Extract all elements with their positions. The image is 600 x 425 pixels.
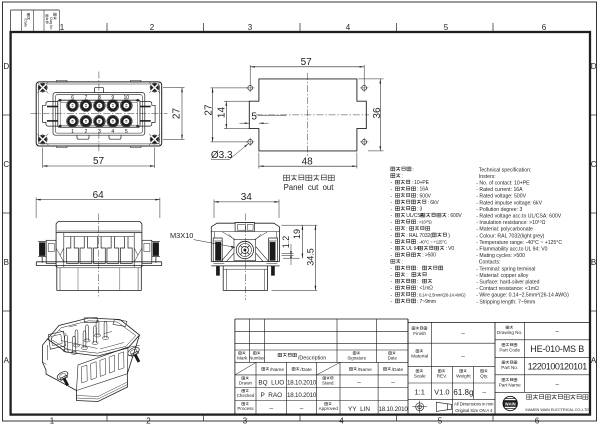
side view 64 bottle cavities xyxy=(67,237,79,264)
side view 34 base lines washers xyxy=(211,261,279,263)
svg-text:1: 1 xyxy=(71,129,74,135)
mini table rotated date text xyxy=(24,13,30,27)
svg-text:34.5: 34.5 xyxy=(305,248,315,266)
side view 34 right pillar black screw xyxy=(269,238,278,262)
svg-text:D: D xyxy=(591,62,597,71)
svg-text::: : xyxy=(406,273,407,279)
front view hood outline xyxy=(53,93,145,136)
svg-text:6: 6 xyxy=(535,417,540,425)
side view 34 dimension 1.2 xyxy=(282,252,294,254)
part name cell xyxy=(502,378,505,381)
isometric 3d view top rim xyxy=(48,318,140,356)
svg-text:: 0.14~2.5mm²(26-14 AWG): : 0.14~2.5mm²(26-14 AWG) xyxy=(417,292,466,297)
svg-text:: 16A: : 16A xyxy=(417,187,429,193)
svg-text:: <1mΩ: : <1mΩ xyxy=(417,286,433,292)
svg-text:YY LIN: YY LIN xyxy=(348,406,370,413)
cutout dimension 5 notch xyxy=(240,122,250,124)
svg-text:Stand.: Stand. xyxy=(322,380,335,385)
isometric left screw with black stem xyxy=(56,370,73,388)
svg-text:1:1: 1:1 xyxy=(414,388,424,397)
process row xyxy=(242,403,245,406)
technical spec chinese column xyxy=(391,167,395,171)
svg-text:Finish: Finish xyxy=(413,331,426,337)
svg-text:–: – xyxy=(391,379,395,386)
svg-text:34: 34 xyxy=(241,192,253,203)
zone column tick marks xyxy=(106,23,108,32)
svg-text:Original Size ON A 4: Original Size ON A 4 xyxy=(455,408,493,413)
svg-text:5: 5 xyxy=(125,129,128,135)
svg-text:Part No.: Part No. xyxy=(501,365,518,370)
svg-text:–: – xyxy=(555,381,559,388)
checked row xyxy=(242,389,245,392)
svg-text:2: 2 xyxy=(146,417,151,425)
svg-text:–: – xyxy=(357,379,361,386)
svg-text:M3X10: M3X10 xyxy=(170,231,193,240)
svg-text:/Description: /Description xyxy=(298,356,326,362)
svg-text:A: A xyxy=(4,356,10,365)
svg-text:7: 7 xyxy=(85,95,88,101)
svg-text:: 500V: : 500V xyxy=(417,193,432,199)
svg-text::: : xyxy=(402,259,403,265)
isometric front cavity band xyxy=(77,347,129,391)
front view right latch bracket xyxy=(140,102,155,127)
svg-text:V1.0: V1.0 xyxy=(434,388,449,397)
svg-text:: >10¹⁰Ω: : >10¹⁰Ω xyxy=(417,220,433,225)
company logo WAIN xyxy=(503,396,517,410)
svg-text:B: B xyxy=(4,258,9,267)
svg-text:- Rated current: 16A: - Rated current: 16A xyxy=(476,187,523,193)
svg-text:- Mating cycles: >500: - Mating cycles: >500 xyxy=(476,253,525,259)
side view 34 V arms xyxy=(221,247,269,262)
side view 64 dimension xyxy=(35,198,37,219)
svg-text:–: – xyxy=(555,329,559,336)
cutout dimension 57 top xyxy=(249,65,251,85)
side view 34 dimension xyxy=(213,200,215,219)
side view 64 left screw black xyxy=(39,243,45,256)
cutout dimension 36 right xyxy=(359,78,384,80)
svg-text:2: 2 xyxy=(85,129,88,135)
svg-text:57: 57 xyxy=(93,156,105,167)
svg-text:18.10.2010: 18.10.2010 xyxy=(378,406,408,413)
svg-text:- Surface: hard-silver plated: - Surface: hard-silver plated xyxy=(476,280,539,286)
svg-text:- Insulation resistance: >10¹: - Insulation resistance: >10¹⁰Ω xyxy=(476,220,545,226)
svg-text:/Date: /Date xyxy=(300,367,312,373)
svg-text:Technical specification:: Technical specification: xyxy=(479,167,532,173)
svg-text:- Rated voltage acc.to UL/CSA: - Rated voltage acc.to UL/CSA: 600V xyxy=(476,214,561,220)
svg-text:All Dimensions in mm: All Dimensions in mm xyxy=(454,401,494,406)
svg-text:3: 3 xyxy=(98,129,101,135)
svg-text:- Stripping length: 7~9mm: - Stripping length: 7~9mm xyxy=(476,299,535,305)
svg-text:- Material: copper alloy: - Material: copper alloy xyxy=(476,273,528,279)
svg-text:Qty.: Qty. xyxy=(480,374,488,379)
side view 34 centerline xyxy=(244,214,246,301)
svg-text:Drawing No.: Drawing No. xyxy=(497,330,522,335)
svg-text:/Name: /Name xyxy=(270,367,284,373)
front view left latch bracket xyxy=(43,102,58,127)
panel cutout outline xyxy=(249,79,366,151)
side view 34 dimension 19 xyxy=(282,224,318,226)
svg-text:- Wire gauge: 0.14~2.5mm²(26-: - Wire gauge: 0.14~2.5mm²(26-14 AWG) xyxy=(476,293,569,299)
svg-text:: >500: : >500 xyxy=(422,253,436,259)
cutout dimension 48 bottom xyxy=(258,153,260,169)
svg-text:–: – xyxy=(461,354,465,361)
svg-text:–: – xyxy=(482,389,486,396)
mini table rotated dwg text xyxy=(46,13,57,29)
part no cell xyxy=(502,361,505,364)
side view 64 top cap xyxy=(56,222,142,233)
front view centerlines xyxy=(98,72,100,153)
svg-text::: : xyxy=(406,226,407,232)
svg-text:19: 19 xyxy=(292,229,302,239)
panel cutout centerlines xyxy=(307,73,309,157)
svg-text:C: C xyxy=(3,160,9,169)
drawn row xyxy=(242,377,245,380)
svg-text:Panel cut out: Panel cut out xyxy=(284,183,335,192)
drawing no cell xyxy=(506,326,509,329)
side view 34 top outline wings xyxy=(211,223,279,262)
svg-text:- Material: polycarbonate: - Material: polycarbonate xyxy=(476,227,533,233)
front view insert corner marks xyxy=(59,99,62,102)
svg-text:: 600V: : 600V xyxy=(448,213,463,219)
svg-text:: 10+PE: : 10+PE xyxy=(412,180,430,186)
front view top guide tab xyxy=(95,87,104,92)
svg-text:4: 4 xyxy=(346,23,351,32)
projection symbol circle xyxy=(416,403,424,411)
svg-text:C: C xyxy=(591,160,597,169)
right title block grid xyxy=(495,339,590,341)
svg-text:UL 94: UL 94 xyxy=(406,246,419,252)
svg-text:: 3: : 3 xyxy=(417,207,423,213)
svg-text:2: 2 xyxy=(150,23,155,32)
svg-text:- Colour: RAL 7032(light grey: - Colour: RAL 7032(light grey) xyxy=(476,233,544,239)
svg-text:Part Name: Part Name xyxy=(499,382,521,387)
side view 64 centerline xyxy=(98,214,100,298)
side view 34 dimension 34.5 xyxy=(272,289,318,291)
scale rev weight qty headers xyxy=(416,370,419,373)
description header xyxy=(278,353,282,356)
front view insert body xyxy=(58,100,140,127)
svg-text:5: 5 xyxy=(438,417,443,425)
name date sub headers xyxy=(262,368,265,371)
svg-text:: 6kV: : 6kV xyxy=(428,200,440,206)
company name chinese xyxy=(527,395,532,400)
svg-text:5: 5 xyxy=(444,23,449,32)
side view 34 screw stems below base xyxy=(216,266,219,275)
svg-text:1.2: 1.2 xyxy=(281,236,291,249)
svg-text::: : xyxy=(417,279,418,285)
svg-text:27: 27 xyxy=(172,108,183,120)
side view 64 base plate xyxy=(36,261,161,263)
side view 64 right ear block xyxy=(142,240,152,263)
side view 34 lower skirt xyxy=(223,266,267,291)
svg-text::: : xyxy=(412,167,413,173)
projection symbol cone xyxy=(436,402,451,411)
svg-text:- Rated impulse voltage: 6kV: - Rated impulse voltage: 6kV xyxy=(476,200,542,206)
svg-text:Date: Date xyxy=(388,355,398,360)
svg-text::: : xyxy=(402,174,403,180)
svg-text:Material: Material xyxy=(411,354,428,360)
isometric right screw with black stem xyxy=(126,346,144,365)
side view 64 side frames xyxy=(55,233,57,267)
svg-text:64: 64 xyxy=(93,190,105,201)
svg-text:4: 4 xyxy=(339,417,344,425)
svg-text:9: 9 xyxy=(111,95,114,101)
svg-text:REV.: REV. xyxy=(437,374,448,379)
svg-text:6: 6 xyxy=(542,23,547,32)
svg-text:B: B xyxy=(591,258,596,267)
svg-text:3: 3 xyxy=(248,23,253,32)
svg-text:18.10.2010: 18.10.2010 xyxy=(287,392,317,399)
svg-text:/Name: /Name xyxy=(358,367,372,373)
svg-text:/Date: /Date xyxy=(24,18,28,27)
svg-text:1: 1 xyxy=(60,23,65,32)
svg-text:: -40°C ~ +125°C: : -40°C ~ +125°C xyxy=(417,240,447,245)
side view 34 left pillar black screw xyxy=(213,238,222,262)
side view 64 terminal top band xyxy=(64,236,134,238)
svg-text:1220100120101: 1220100120101 xyxy=(528,362,588,372)
top-left mini title table xyxy=(11,9,60,11)
finish cell xyxy=(412,327,415,330)
front view dimension 57 xyxy=(42,148,44,168)
svg-text:Dwg.No: Dwg.No xyxy=(49,17,53,29)
side view 64 right screw black xyxy=(153,243,159,256)
svg-text:- Terminal: spring terminal: - Terminal: spring terminal xyxy=(476,266,535,272)
svg-text:Weight: Weight xyxy=(456,374,471,379)
material cell xyxy=(416,350,419,353)
middle title block grid xyxy=(408,321,590,323)
svg-text:–: – xyxy=(269,405,273,412)
side view 34 top center tab xyxy=(235,223,255,232)
svg-text:Insters:: Insters: xyxy=(479,174,496,180)
svg-text:48: 48 xyxy=(302,156,314,167)
svg-text:- Pollution degree: 3: - Pollution degree: 3 xyxy=(476,207,522,213)
revision header labels xyxy=(239,352,242,355)
svg-text:–: – xyxy=(461,331,465,338)
cutout dimension 14 left xyxy=(224,100,249,102)
svg-text:/Date: /Date xyxy=(392,367,404,373)
isometric bottom skirt lines xyxy=(76,382,127,399)
svg-text:8: 8 xyxy=(98,95,101,101)
front view contacts xyxy=(67,100,79,112)
svg-text:1: 1 xyxy=(50,417,55,425)
side view 64 left ear block xyxy=(46,240,56,263)
svg-text:57: 57 xyxy=(301,57,313,68)
isometric body left wall xyxy=(42,335,139,402)
svg-text:- Rated voltage: 500V: - Rated voltage: 500V xyxy=(476,194,526,200)
svg-text:36: 36 xyxy=(372,107,383,119)
svg-text:: RAL 7032(: : RAL 7032( xyxy=(406,233,432,239)
svg-text:3: 3 xyxy=(243,417,248,425)
svg-text:P RAO: P RAO xyxy=(260,392,282,399)
front view mounting ear bumps xyxy=(57,80,68,82)
svg-text:- Contact resistance: <1mΩ: - Contact resistance: <1mΩ xyxy=(476,286,539,292)
svg-text::: : xyxy=(417,266,418,272)
svg-text:Scale: Scale xyxy=(414,374,426,379)
svg-text:- No. of contact: 10+PE: - No. of contact: 10+PE xyxy=(476,181,530,187)
panel cutout holes xyxy=(248,86,253,91)
side view 64 lower skirt xyxy=(57,266,142,291)
svg-text:HE-010-MS B: HE-010-MS B xyxy=(530,344,584,354)
front view bottom guide tabs xyxy=(77,135,89,139)
front view dimension 27 xyxy=(163,87,185,89)
svg-text:D: D xyxy=(3,62,9,71)
svg-text:Checked: Checked xyxy=(237,393,255,398)
svg-text:- Temperature range: -40°C ~: - Temperature range: -40°C ~ +125°C xyxy=(476,240,562,246)
cutout dimension 27 left xyxy=(211,87,248,89)
part code cell xyxy=(502,343,505,346)
svg-text:–: – xyxy=(300,405,304,412)
svg-text:Signature: Signature xyxy=(347,355,366,360)
svg-text:5: 5 xyxy=(251,111,257,122)
svg-text:XIAMEN WAIN ELECTRICAL CO.,LTD: XIAMEN WAIN ELECTRICAL CO.,LTD xyxy=(525,407,589,412)
svg-text:BQ LUO: BQ LUO xyxy=(258,380,284,387)
svg-text:: 7~9mm: : 7~9mm xyxy=(417,299,436,305)
svg-text:27: 27 xyxy=(203,104,214,116)
diagonal cells xyxy=(235,362,256,375)
isometric misc top face lines xyxy=(59,325,124,349)
front view corner screws xyxy=(38,83,47,92)
svg-text:Process: Process xyxy=(237,406,254,411)
svg-text:Contacts:: Contacts: xyxy=(479,260,501,266)
isometric top pins xyxy=(65,335,68,351)
svg-text:Drawn: Drawn xyxy=(239,381,253,386)
svg-text:6: 6 xyxy=(71,95,74,101)
cutout caption Chinese xyxy=(283,175,289,181)
isometric rim tabs xyxy=(84,318,98,323)
svg-text:A: A xyxy=(591,356,597,365)
svg-text:WAIN: WAIN xyxy=(505,402,516,407)
zone row tick marks xyxy=(3,114,11,116)
svg-text:UL/CSA: UL/CSA xyxy=(406,213,424,219)
front view connector flange xyxy=(36,82,162,146)
revision table grid xyxy=(235,318,408,320)
svg-text:18.10.2010: 18.10.2010 xyxy=(287,380,317,387)
svg-text:: V0: : V0 xyxy=(445,246,454,252)
svg-text:14: 14 xyxy=(216,107,227,119)
side view 34 boss square xyxy=(234,240,256,261)
svg-text:- Flammability acc.to UL 94:: - Flammability acc.to UL 94: V0 xyxy=(476,247,547,253)
svg-text:Part Code: Part Code xyxy=(499,347,520,352)
svg-text:61.8g: 61.8g xyxy=(453,388,473,397)
side view 34 central screw M3 xyxy=(236,241,253,258)
svg-text:Approved: Approved xyxy=(319,406,339,411)
svg-text:Number: Number xyxy=(249,355,265,360)
svg-text:Mark: Mark xyxy=(237,356,248,361)
svg-text:10: 10 xyxy=(123,95,129,101)
svg-text:4: 4 xyxy=(111,129,114,135)
